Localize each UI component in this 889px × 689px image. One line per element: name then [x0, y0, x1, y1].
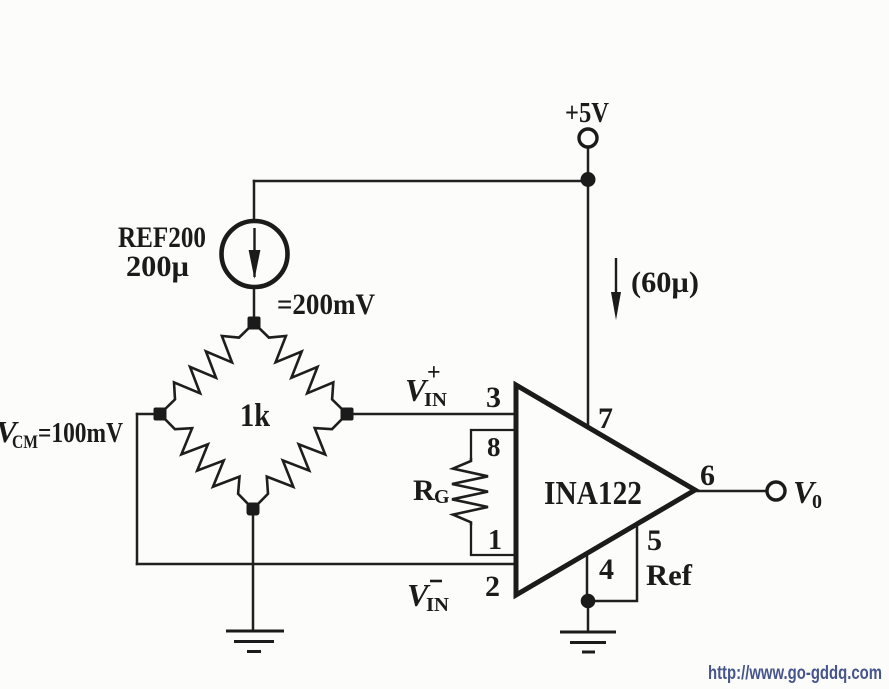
wire bottom rail to pin 2: [137, 563, 516, 566]
node top (bridge): [248, 317, 261, 330]
svg-text:Ref: Ref: [646, 559, 693, 592]
wire output pin 6: [695, 490, 767, 493]
svg-text:0: 0: [812, 491, 822, 513]
junction dot +5V rail: [581, 172, 596, 187]
wire left vertical to bottom rail: [136, 414, 139, 564]
svg-text:3: 3: [486, 381, 501, 414]
wire top horizontal +5V rail: [254, 180, 588, 183]
junction dot ref node: [581, 594, 596, 609]
svg-text:=100mV: =100mV: [38, 417, 123, 449]
RG bracket pins 8 and 1: [471, 430, 516, 459]
+5V terminal circle: [579, 129, 597, 147]
wire +5V terminal to pin 7 vertical: [587, 147, 590, 426]
resistor bridge R3 bottom-left: [160, 414, 253, 509]
svg-text:IN: IN: [424, 389, 448, 411]
svg-text:http://www.go-gddq.com: http://www.go-gddq.com: [708, 663, 882, 684]
wire ref node to ground: [587, 601, 590, 631]
svg-text:4: 4: [599, 553, 614, 586]
svg-text:7: 7: [598, 402, 613, 435]
node bottom (bridge): [247, 503, 260, 516]
node right (bridge): [341, 408, 354, 421]
resistor bridge R2 top-right: [254, 323, 347, 414]
ground below ref node: [560, 632, 616, 652]
svg-text:5: 5: [647, 524, 662, 557]
wire bridge bottom node to ground: [252, 509, 255, 630]
svg-text:CM: CM: [12, 432, 38, 453]
resistor bridge R4 bottom-right: [253, 414, 347, 509]
op-amp U2 INA122 triangle: [516, 385, 695, 595]
resistor bridge R1 top-left: [160, 323, 254, 414]
svg-text:INA122: INA122: [544, 475, 642, 512]
wire left node stub: [137, 413, 160, 416]
wire REF200 bottom lead: [253, 287, 256, 323]
current source U1 REF200 circle: [222, 221, 288, 287]
svg-text:R: R: [413, 474, 435, 507]
svg-text:(60µ): (60µ): [631, 266, 699, 299]
svg-text:1: 1: [488, 525, 502, 556]
wire pin 4 lead: [586, 553, 589, 601]
svg-text:8: 8: [487, 432, 501, 462]
svg-text:200µ: 200µ: [126, 250, 189, 283]
ground below bridge: [226, 631, 284, 652]
svg-text:1k: 1k: [240, 398, 271, 434]
wire REF200 top lead: [253, 181, 256, 221]
resistor RG: [452, 458, 488, 525]
svg-text:=200mV: =200mV: [277, 288, 375, 321]
svg-text:6: 6: [700, 459, 715, 492]
node left (bridge): [154, 408, 167, 421]
current source arrow: [253, 228, 255, 277]
output terminal circle V0: [767, 482, 785, 500]
arrow (60u) current direction: [615, 258, 617, 296]
wire right node to pin 3: [347, 413, 516, 416]
svg-text:2: 2: [485, 570, 500, 603]
svg-text:G: G: [434, 486, 450, 508]
wire pin 5 lead and Ref link: [590, 525, 637, 601]
svg-text:+: +: [427, 360, 441, 386]
svg-text:IN: IN: [426, 594, 450, 616]
svg-text:+5V: +5V: [565, 97, 609, 129]
